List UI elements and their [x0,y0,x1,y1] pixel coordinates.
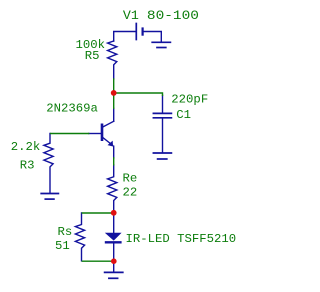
svg-text:80-100: 80-100 [147,8,199,23]
svg-text:V1: V1 [123,8,139,23]
svg-text:R5: R5 [85,49,100,63]
svg-text:R3: R3 [20,158,35,172]
svg-text:Rs: Rs [58,225,73,239]
svg-text:51: 51 [55,239,70,253]
svg-text:C1: C1 [176,108,191,122]
svg-text:2N2369a: 2N2369a [46,102,98,116]
svg-text:IR-LED TSFF5210: IR-LED TSFF5210 [126,232,237,246]
svg-text:22: 22 [123,186,138,200]
svg-text:2.2k: 2.2k [11,140,41,154]
svg-text:220pF: 220pF [171,93,208,107]
svg-text:Re: Re [123,172,138,186]
